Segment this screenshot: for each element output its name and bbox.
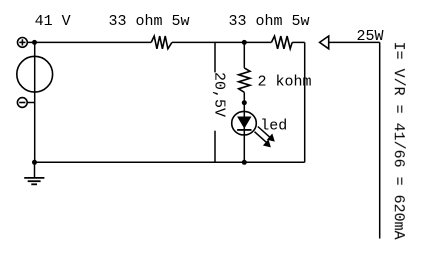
voltage source V1 minus terminal (17, 98, 27, 108)
svg-text:2 kohm: 2 kohm (258, 73, 312, 90)
svg-text:25W: 25W (357, 28, 384, 45)
svg-text:led: led (260, 118, 287, 135)
svg-text:I= V/R = 41/66 = 620mA: I= V/R = 41/66 = 620mA (390, 42, 407, 240)
resistor R1 33 ohm 5w (151, 36, 172, 49)
label 25W (357, 28, 384, 45)
wire from R3 to LED node (243, 92, 245, 102)
ground (24, 162, 44, 184)
power arrowhead open left (320, 36, 329, 49)
wire power arrow vertical (379, 42, 381, 238)
label R2 value 33 ohm 5w (229, 13, 310, 30)
wire left rail vertical (34, 42, 36, 162)
svg-text:33 ohm 5w: 33 ohm 5w (109, 13, 190, 30)
wire power arrow horizontal (329, 41, 380, 43)
wire measured branch lower segment (214, 131, 216, 163)
label R3 value 2 kohm (258, 73, 312, 90)
node junction dot bottom left (32, 160, 37, 165)
wire top from R2 to right corner (292, 41, 305, 43)
node junction dot between R3 and LED (242, 100, 247, 105)
label led (260, 118, 287, 135)
wire top from plus terminal to resistor R1 (27, 41, 151, 43)
wire measured branch upper segment (214, 42, 216, 72)
resistor R3 2 kohm (239, 68, 250, 92)
LED D1 circle (232, 111, 257, 135)
label 41 V (35, 13, 71, 30)
svg-text:20,5V: 20,5V (210, 72, 227, 117)
voltage source V1 body circle (17, 56, 53, 92)
wire through LED to bottom rail (243, 103, 245, 163)
annotation 20,5V rotated (210, 72, 227, 117)
wire top between R1 and R2 (172, 41, 272, 43)
svg-text:33 ohm 5w: 33 ohm 5w (229, 13, 310, 30)
LED emission arrow upper (258, 127, 275, 142)
svg-text:41 V: 41 V (35, 13, 71, 30)
node junction dot LED bottom (242, 160, 247, 165)
node junction dot top left (32, 40, 37, 45)
node junction dot middle branch (242, 40, 247, 45)
label R1 value 33 ohm 5w (109, 13, 190, 30)
wire bottom rail (35, 161, 305, 163)
LED emission arrow lower (255, 132, 271, 148)
LED D1 anode triangle (237, 117, 251, 129)
annotation I= V/R = 41/66 = 620mA rotated (390, 42, 407, 240)
LED D1 cathode bar (237, 129, 251, 131)
voltage source V1 plus terminal (18, 38, 28, 48)
wire middle branch from node to resistor R3 (243, 42, 245, 68)
wire minus terminal stub (27, 102, 35, 104)
wire right rail vertical (304, 42, 306, 162)
resistor R2 33 ohm 5w (271, 36, 292, 49)
